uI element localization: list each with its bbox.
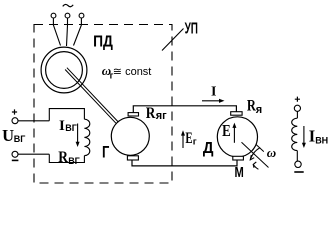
svg-text:ВГ: ВГ (65, 123, 77, 133)
dashed enclosure box (34, 25, 172, 184)
U_ВГ plus terminal (12, 109, 17, 114)
U_ВГ minus terminal (12, 151, 18, 157)
svg-text:М: М (235, 165, 244, 181)
svg-text:R: R (146, 105, 156, 122)
prime mover ПД (double circle) (41, 47, 87, 93)
УП leader slash (162, 29, 184, 51)
supply terminal 2 (65, 13, 70, 18)
I_ВГ arrow (77, 124, 79, 144)
rotation arrow ω arc (250, 148, 260, 160)
I arrow (armature current) (202, 100, 221, 102)
supply lead 3 (74, 18, 82, 46)
svg-text:ВГ: ВГ (68, 156, 80, 166)
supply lead 2 (67, 18, 68, 46)
svg-text:≅ const: ≅ const (113, 66, 152, 78)
armature top wire Г->Д (133, 106, 236, 113)
svg-text:U: U (2, 126, 14, 145)
svg-text:Д: Д (203, 140, 214, 157)
excitation winding: + terminal (295, 97, 300, 102)
wire - to winding (18, 153, 49, 155)
supply tilde ~ (63, 4, 73, 6)
minus sign (294, 171, 303, 173)
I_ВН arrow (303, 126, 305, 145)
excitation coil I_ВН (292, 118, 298, 150)
supply lead 1 (53, 18, 60, 46)
svg-text:E: E (222, 121, 231, 140)
Г bottom brush (127, 156, 138, 160)
svg-text:ВГ: ВГ (14, 134, 26, 144)
svg-text:яг: яг (156, 110, 167, 122)
armature bottom wire Г->Д (132, 160, 237, 166)
svg-text:R: R (58, 149, 68, 166)
E arrow (inside Д) (233, 126, 235, 143)
svg-text:I: I (211, 85, 216, 100)
field winding loop with coil (ОВГ) (49, 109, 84, 121)
Г top brush (128, 113, 138, 116)
motor Д circle (217, 117, 257, 157)
svg-text:ω: ω (267, 145, 276, 160)
wire to coil (296, 111, 298, 118)
svg-text:I: I (59, 118, 65, 134)
svg-text:ВН: ВН (315, 135, 328, 145)
svg-text:г: г (193, 136, 197, 147)
svg-text:УП: УП (185, 21, 198, 38)
svg-text:ПД: ПД (93, 33, 113, 50)
motor shaft (double line) (242, 142, 269, 167)
supply terminal 3 (79, 13, 84, 18)
wire to - terminal (296, 151, 298, 161)
wire + to winding (18, 120, 49, 122)
shaft ПД-Г (double line) (65, 68, 118, 124)
svg-text:я: я (256, 104, 262, 116)
svg-text:E: E (185, 130, 192, 147)
Д top brush (231, 112, 242, 116)
supply terminal 1 (51, 13, 56, 18)
generator Г circle (111, 117, 149, 155)
E_Г arrow (182, 134, 184, 149)
svg-text:Г: Г (102, 144, 109, 162)
Д bottom brush (233, 156, 244, 160)
